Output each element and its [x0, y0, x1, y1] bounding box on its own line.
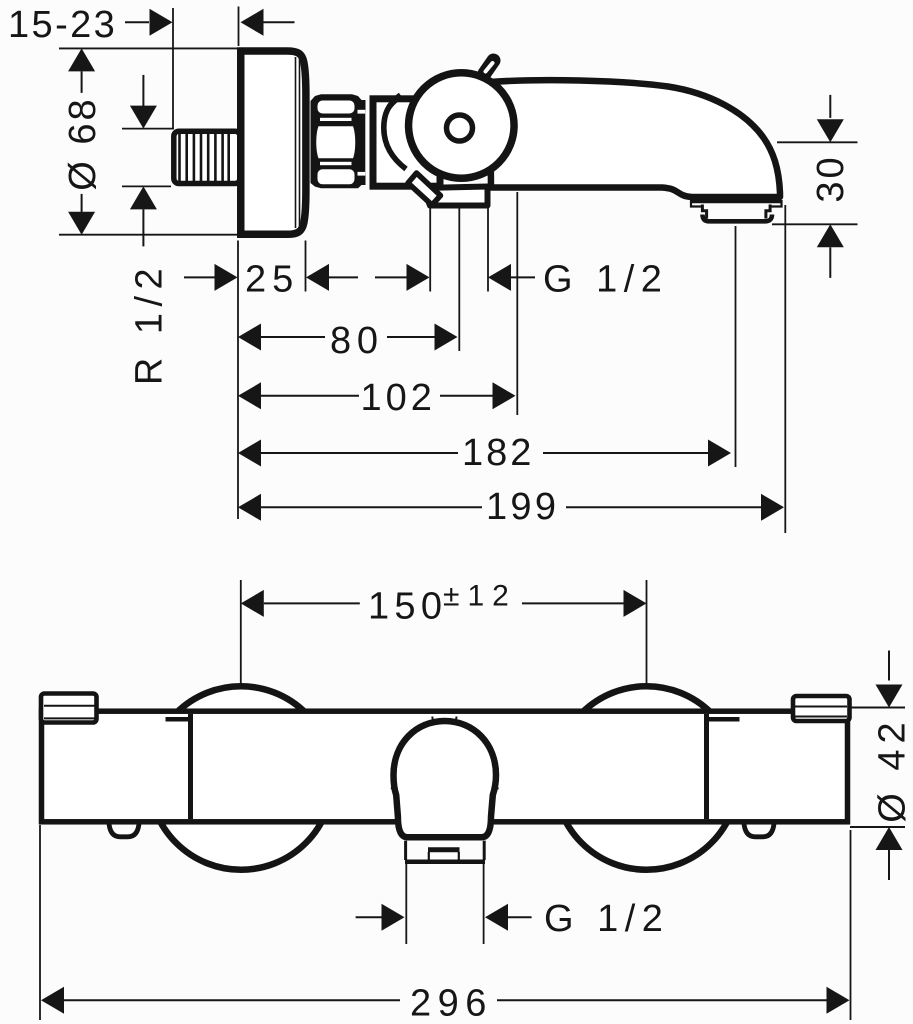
check valve bump right: [744, 821, 774, 837]
dim 15-23 right arrow: [241, 9, 295, 36]
handle center hole: [447, 115, 473, 141]
dim 150 left extension line: [240, 580, 242, 684]
dim G1/2 right arrow: [488, 264, 535, 291]
dim 296 left extension line: [39, 825, 41, 1020]
escutcheon edge tick left: [166, 717, 191, 722]
extension line x=488 (stub right): [487, 208, 489, 292]
dim 182 line with arrows: [238, 440, 731, 467]
dim G1/2 right extension line: [483, 864, 485, 944]
extension line x=238 below escutcheon: [237, 241, 239, 520]
dim 102 line with arrows: [238, 382, 516, 409]
bar joint line left: [188, 714, 193, 819]
dim G1/2 bottom left arrow: [356, 904, 405, 931]
dim R1/2 bottom extension line: [122, 185, 171, 187]
cartridge inner thin line: [385, 101, 398, 121]
escutcheon face lines: [295, 57, 297, 228]
spout flange bar: [692, 196, 782, 204]
svg-text:102: 102: [361, 377, 436, 419]
thermostat handle dome: [394, 721, 497, 837]
svg-text:150: 150: [368, 586, 447, 628]
dim O68 top extension line: [59, 47, 240, 49]
nipple thread lines: [180, 134, 229, 182]
dim 150 right extension line: [646, 580, 648, 684]
dim O68 bottom extension line: [59, 234, 240, 236]
svg-text:25: 25: [245, 259, 299, 301]
dim G1/2 left arrow: [375, 264, 430, 291]
union nut silhouette: [311, 94, 366, 188]
dim O42 arrows: [876, 651, 903, 881]
handle lever: [485, 61, 494, 74]
dim G1/2 left extension line: [405, 864, 407, 944]
dim R1/2 top extension line: [122, 128, 174, 130]
dim O68 vertical line with arrows: [68, 48, 95, 234]
mixer bar body: [42, 711, 848, 822]
spout body: [490, 80, 780, 197]
dim 199 line with arrows: [238, 494, 784, 521]
wall escutcheon: [241, 51, 306, 234]
svg-text:199: 199: [486, 486, 559, 528]
right union cover flange: [793, 696, 850, 721]
svg-text:296: 296: [410, 983, 493, 1024]
aerator sides: [702, 205, 770, 219]
dim G1/2 bottom right arrow: [485, 904, 532, 931]
svg-text:Ø 68: Ø 68: [62, 96, 104, 190]
dim O42 top extension line: [848, 707, 905, 709]
dim 25 left arrow: [184, 264, 238, 291]
svg-text:R 1/2: R 1/2: [129, 262, 171, 385]
handle collar bottom: [405, 860, 485, 865]
valve body block: [373, 99, 440, 186]
svg-text:Ø 42: Ø 42: [872, 716, 913, 822]
dim O42 bottom extension line: [850, 826, 905, 828]
dim 30 top extension line: [777, 141, 858, 143]
dim 296 right extension line: [850, 830, 852, 1020]
svg-text:182: 182: [462, 432, 534, 474]
handle knob ring: [409, 73, 515, 179]
dim 296 line with arrows: [41, 987, 850, 1014]
bar joint line right: [704, 714, 709, 819]
extension line x=735.5 (outlet axis): [735, 226, 737, 467]
wall nipple R1/2 threaded: [174, 131, 240, 183]
svg-text:G 1/2: G 1/2: [544, 898, 669, 940]
handle collar sides: [406, 841, 485, 860]
dome cap seam nicks: [391, 717, 499, 789]
cartridge dome arc behind handle: [384, 95, 406, 169]
nut white details: [316, 101, 370, 185]
svg-text:G 1/2: G 1/2: [543, 259, 668, 301]
aerator bottom: [703, 215, 773, 222]
svg-text:±12: ±12: [443, 580, 517, 613]
svg-text:80: 80: [330, 320, 384, 362]
collar inner step sides: [429, 852, 459, 860]
svg-text:15-23: 15-23: [8, 4, 117, 46]
dim 30 arrows: [817, 95, 844, 278]
dim 15-23 left arrow: [125, 9, 173, 36]
extension line x=517 (spout joint): [516, 192, 518, 415]
dim 30 bottom extension line: [772, 223, 858, 225]
outlet stub under valve: [423, 187, 488, 206]
flange skirt: [691, 200, 782, 207]
collar inner step top: [428, 847, 460, 852]
extension line x=238.5 (wall face): [238, 7, 240, 47]
dim 150 line with arrows: [241, 590, 647, 617]
dim 80 line with arrows: [238, 324, 458, 351]
extension line x=173 (nipple start): [172, 8, 174, 129]
extension line x=430 (stub left): [429, 208, 431, 292]
right wall escutcheon circle: [555, 686, 739, 870]
dim R1/2 arrows: [130, 75, 157, 247]
svg-text:30: 30: [810, 154, 852, 202]
escutcheon edge tick right: [707, 717, 740, 722]
extension line x=785 (spout tip): [784, 205, 786, 533]
check valve bump left: [109, 821, 139, 837]
extension line x=305.5: [305, 241, 307, 292]
diverter tab: [408, 173, 441, 205]
extension line x=459 (valve axis): [458, 208, 460, 351]
left union cover flange: [41, 694, 97, 723]
left wall escutcheon circle: [149, 686, 333, 870]
dim 25 right arrow: [306, 264, 358, 291]
